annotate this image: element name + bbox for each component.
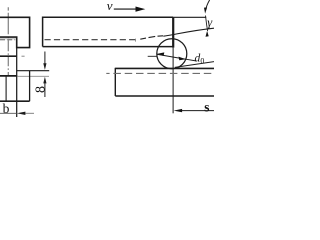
dashed flow line in workpiece xyxy=(45,39,136,41)
gray projection of lower tooth surface xyxy=(17,75,49,77)
gray projection line under tool notch xyxy=(0,38,16,40)
d0 diameter line xyxy=(157,54,186,59)
gamma leader lower arc xyxy=(206,16,208,32)
rising dash 2 xyxy=(149,36,156,37)
top edge extension line xyxy=(173,16,206,18)
cutting edge circle xyxy=(157,39,187,69)
lower workpiece top edge xyxy=(115,67,214,69)
gamma leader lower arrowhead xyxy=(206,31,209,37)
lower tooth edge (thick) xyxy=(0,75,17,77)
lower block right edge xyxy=(29,71,31,102)
dimension 8 up arrowhead xyxy=(43,77,46,84)
dimension 8 lower line xyxy=(44,83,46,97)
lower workpiece bottom edge xyxy=(115,95,214,97)
rising dash 3 xyxy=(158,35,164,37)
workpiece right end face (thick) xyxy=(172,17,174,47)
svg-text:s: s xyxy=(204,101,210,116)
svg-text:0: 0 xyxy=(200,56,204,65)
lower block bottom edge xyxy=(0,100,30,102)
small tick on flow line xyxy=(135,39,137,42)
middle tooth edge (thick) xyxy=(0,55,17,57)
d0 tail to label xyxy=(186,59,197,61)
svg-text:v: v xyxy=(107,0,113,13)
step surface line y=70.7 xyxy=(17,70,50,72)
velocity arrowhead xyxy=(136,7,146,12)
rake face slant line xyxy=(163,28,214,36)
dimension b arrowhead xyxy=(17,112,26,115)
hidden dashed line in notch xyxy=(0,39,15,41)
dimension 8 down arrowhead xyxy=(43,63,46,70)
dimension s arrowhead xyxy=(174,109,183,112)
centerline of left tool (dash-dot) xyxy=(7,7,9,76)
dimension s line xyxy=(181,110,214,112)
gamma leader arc upper xyxy=(206,0,210,10)
d0 left arrowhead xyxy=(157,52,164,56)
lower workpiece left edge xyxy=(114,68,116,96)
dimension line b xyxy=(0,112,17,114)
slot left wall xyxy=(5,76,7,101)
svg-text:b: b xyxy=(3,101,10,116)
rising dash 1 xyxy=(140,38,146,39)
flank slant line below circle xyxy=(175,62,214,68)
gray dash right of middle tooth xyxy=(22,55,25,57)
dimension 8 upper line xyxy=(44,52,46,64)
velocity arrow line xyxy=(114,8,138,10)
long vertical edge x=16.7 xyxy=(16,37,18,117)
workpiece big rectangle xyxy=(43,17,174,46)
d0 left tail line xyxy=(148,55,157,57)
vertical reference line through circle xyxy=(172,48,174,114)
tool top block outline xyxy=(0,17,30,47)
dimension b tail xyxy=(25,112,34,114)
workpiece bottom edge xyxy=(43,46,174,48)
svg-text:8: 8 xyxy=(34,86,49,93)
dashed former surface line xyxy=(106,72,214,74)
d0 right arrowhead xyxy=(179,57,186,61)
gamma leader arrowhead xyxy=(204,7,207,13)
